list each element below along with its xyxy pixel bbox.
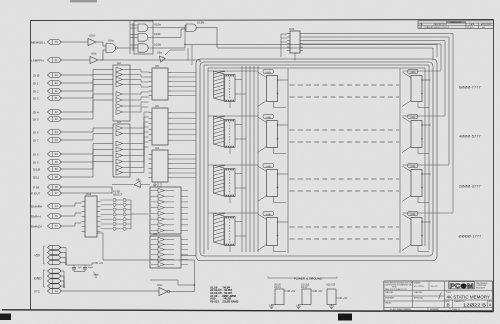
node LXMRFH stub bbox=[31, 58, 62, 63]
svg-text:APPROVED: APPROVED bbox=[481, 23, 492, 26]
wire DI stub y98 to buffer bbox=[61, 85, 114, 99]
svg-text:ENGINEER: ENGINEER bbox=[385, 298, 395, 300]
svg-text:+5V: +5V bbox=[34, 254, 41, 258]
node GND pin bbox=[48, 269, 62, 273]
svg-text:U7: U7 bbox=[153, 183, 157, 187]
wire U21 out y40.5 bbox=[303, 41, 445, 116]
svg-text:DI 6: DI 6 bbox=[33, 130, 39, 134]
node GND pin bbox=[48, 274, 62, 278]
svg-text:4K STATIC MEMORY: 4K STATIC MEMORY bbox=[447, 294, 491, 300]
svg-text:LXMRFH: LXMRFH bbox=[31, 58, 44, 62]
wire +IN arrow bbox=[92, 262, 103, 265]
IC U6 bbox=[149, 104, 172, 145]
wire riser x192 bbox=[191, 45, 193, 66]
svg-text:U21: U21 bbox=[289, 27, 295, 31]
wire row select left bbox=[208, 115, 258, 117]
svg-text:P2-U22 . . 21LØ2 RAMS: P2-U22 . . 21LØ2 RAMS bbox=[210, 300, 239, 304]
wire DI stub y177 to buffer bbox=[61, 162, 114, 178]
wire row select right bbox=[403, 70, 442, 72]
wire address bus vertical x242 bbox=[241, 66, 243, 252]
svg-text:DI 1: DI 1 bbox=[33, 81, 39, 85]
buffer U9e diag bbox=[112, 179, 150, 188]
capacitor C1 .1uF bbox=[72, 265, 82, 272]
wire U2 out y74.5 bbox=[130, 75, 149, 78]
IC U46A bbox=[220, 164, 247, 203]
buffer U9c bbox=[157, 283, 170, 296]
svg-text:U3: U3 bbox=[117, 120, 121, 124]
wire DI stub y132 to buffer bbox=[61, 128, 114, 132]
wire row select right bbox=[403, 115, 446, 117]
buffer array U2 bbox=[113, 61, 130, 121]
resistor pack RP3 (hatched) bbox=[214, 165, 225, 196]
svg-text:B: B bbox=[447, 303, 450, 308]
wire DI stub y162 to buffer bbox=[61, 150, 114, 163]
revision table bbox=[418, 21, 494, 29]
svg-text:J.B.: J.B. bbox=[482, 27, 486, 29]
regulator VR2 bbox=[296, 285, 323, 309]
node DI 7 stub bbox=[33, 138, 62, 143]
wire U2 out y94 bbox=[130, 92, 149, 94]
IC U48A bbox=[220, 70, 247, 108]
svg-text:DI 4: DI 4 bbox=[33, 110, 39, 114]
IC U5 bbox=[149, 64, 172, 100]
wire address bus vertical x246 bbox=[245, 66, 247, 252]
svg-text:+5V: +5V bbox=[291, 290, 296, 293]
wire U3 out y149.5 bbox=[130, 127, 149, 150]
svg-text:DI 8: DI 8 bbox=[33, 152, 39, 156]
svg-text:P OUT: P OUT bbox=[31, 191, 40, 195]
svg-text:POWER & GROUND: POWER & GROUND bbox=[294, 276, 323, 280]
wire U21 out y37 bbox=[303, 37, 449, 165]
wire U2 out y112 bbox=[130, 107, 149, 112]
buffer array U3 bbox=[113, 120, 130, 177]
node GND pin bbox=[48, 284, 62, 288]
svg-text:DMAZH: DMAZH bbox=[31, 224, 42, 228]
wire U10b output bbox=[196, 28, 217, 48]
wire gate input verticals bbox=[129, 21, 131, 54]
wire DI stub y154 to buffer bbox=[61, 144, 114, 155]
scan artifact bottom-left black bar bbox=[0, 314, 11, 321]
svg-text:12-1-75: 12-1-75 bbox=[431, 286, 439, 288]
svg-text:12Ø22 B: 12Ø22 B bbox=[463, 303, 486, 309]
svg-text:DI Ø: DI Ø bbox=[33, 73, 40, 77]
svg-text:U43a: U43a bbox=[410, 214, 416, 216]
regulator VR3 bbox=[326, 285, 348, 309]
svg-text:U9a: U9a bbox=[157, 51, 162, 55]
svg-text:MODULES: MODULES bbox=[476, 287, 486, 289]
wire bus top line 3 bbox=[204, 65, 429, 250]
wire DI stub y83 to buffer bbox=[61, 75, 114, 84]
wire U9d out bbox=[96, 42, 106, 46]
wire +5V rail to caps bbox=[66, 264, 92, 266]
wire row select right bbox=[403, 212, 454, 214]
svg-text:CHANGED PER ECO 1210-2: CHANGED PER ECO 1210-2 bbox=[424, 26, 449, 29]
wire U21 out y33.5 bbox=[303, 34, 453, 213]
svg-text:DI 3: DI 3 bbox=[33, 96, 39, 100]
svg-text:U47A: U47A bbox=[220, 115, 226, 118]
wire data bus col2 x400 bbox=[399, 69, 401, 254]
svg-text:RELEASED: RELEASED bbox=[430, 308, 440, 311]
svg-text:U41b: U41b bbox=[266, 117, 272, 119]
wire address bus vertical x258 bbox=[257, 66, 259, 252]
wire U3 out y161.5 bbox=[130, 137, 149, 162]
svg-text:U9c: U9c bbox=[136, 179, 141, 182]
wire dashed row bus b bbox=[290, 96, 400, 98]
svg-text:6ØØØ-7777: 6ØØØ-7777 bbox=[459, 86, 481, 90]
gate U10b AND bbox=[186, 21, 205, 32]
IC U21 bbox=[287, 27, 303, 53]
wire DI stub y140 to buffer bbox=[61, 134, 114, 141]
wire U3 out y155.5 bbox=[130, 132, 149, 156]
node +5V pin bbox=[48, 260, 62, 264]
notes parts list bbox=[210, 285, 239, 303]
node DMARH stub bbox=[31, 204, 62, 209]
buffer U9b bbox=[90, 52, 98, 64]
wire DI stub y112 to buffer bbox=[61, 94, 114, 112]
wire DI stub y119 to buffer bbox=[61, 100, 114, 119]
wire dashed row bus b bbox=[290, 238, 400, 240]
svg-text:U9a: U9a bbox=[108, 39, 114, 43]
node DI 3 stub bbox=[33, 96, 62, 101]
svg-text:U4: U4 bbox=[155, 146, 159, 150]
title block bbox=[384, 281, 493, 311]
node GND pin bbox=[48, 279, 62, 283]
svg-text:DATE: DATE bbox=[470, 23, 476, 26]
wire address bus vertical x254 bbox=[253, 66, 255, 252]
capacitor C2 35uF bbox=[83, 265, 94, 272]
wire U5 outputs to bus bbox=[172, 71, 197, 73]
svg-text:DI 7: DI 7 bbox=[33, 138, 39, 142]
svg-text:U1Ød: U1Ød bbox=[154, 42, 161, 46]
wire U9b branch to bus bbox=[100, 60, 200, 62]
svg-text:U48A: U48A bbox=[220, 70, 226, 73]
svg-text:PC⊕M: PC⊕M bbox=[450, 283, 475, 290]
svg-text:DI11: DI11 bbox=[33, 175, 40, 179]
wire U21 out y44 bbox=[303, 44, 441, 71]
node P OUT stub bbox=[31, 191, 62, 196]
IC U4 bbox=[149, 146, 172, 182]
node DI11 stub bbox=[33, 175, 62, 180]
node MEMSELL stub bbox=[31, 40, 62, 45]
wire U3 out y128 bbox=[130, 112, 149, 128]
svg-text:2ØØØ-3777: 2ØØØ-3777 bbox=[459, 185, 481, 189]
net label POWER & GROUND bbox=[268, 276, 337, 280]
svg-text:MEMSELL: MEMSELL bbox=[31, 40, 46, 44]
svg-text:U9b: U9b bbox=[91, 52, 97, 56]
svg-text:.1µF: .1µF bbox=[77, 267, 82, 269]
wire row select left bbox=[208, 212, 258, 214]
svg-text:35µF: 35µF bbox=[88, 267, 94, 269]
svg-text:DESCRIPTION: DESCRIPTION bbox=[434, 24, 448, 26]
svg-text:DMA H: DMA H bbox=[31, 214, 41, 218]
buffer U9a diag bbox=[157, 50, 185, 62]
gate U1Øa bbox=[138, 23, 161, 32]
wire DMA stub y216 to U11 bbox=[61, 213, 82, 216]
svg-text:DI 9: DI 9 bbox=[33, 160, 39, 164]
node +5V pin bbox=[48, 250, 62, 254]
wire U3 out y133.5 bbox=[130, 117, 149, 134]
svg-text:ØØØØ-1777: ØØØØ-1777 bbox=[459, 235, 482, 239]
wire row select left bbox=[208, 164, 258, 166]
wire address bus vertical x250 bbox=[249, 66, 251, 252]
node DI1Ø stub bbox=[33, 167, 62, 172]
wire GND pin bbox=[61, 276, 65, 288]
wire top bus y44.5 bbox=[185, 45, 437, 58]
resistor pack RP2 (hatched) bbox=[214, 116, 225, 147]
wire DI stub y91 to buffer bbox=[61, 80, 114, 92]
node DI 1 stub bbox=[33, 81, 62, 86]
wire U21 bottom drop bbox=[294, 53, 296, 61]
node DI 8 stub bbox=[33, 152, 62, 157]
svg-text:+IN: +IN bbox=[99, 262, 103, 265]
wire bus loop 2 bbox=[200, 62, 433, 256]
RAM U43b bbox=[258, 211, 289, 251]
wire DI stub y75 to buffer bbox=[61, 70, 114, 76]
RAM U42b bbox=[258, 163, 289, 202]
RAM U4Øb bbox=[258, 69, 289, 107]
wire dashed row bus b bbox=[290, 141, 400, 143]
svg-text:DMARH: DMARH bbox=[31, 204, 42, 208]
wire U21 left pins bbox=[281, 34, 287, 57]
wire U2 out y106 bbox=[130, 102, 149, 106]
wire U3 out y172.5 bbox=[130, 147, 149, 173]
ground symbol caps bbox=[74, 272, 99, 278]
svg-text:2465 FOURTH ST. BERKELEY CA.: 2465 FOURTH ST. BERKELEY CA. bbox=[385, 283, 412, 286]
node DI 5 stub bbox=[33, 117, 62, 122]
wire gate outs to U10b bbox=[157, 26, 186, 28]
wire U8 bottom row bbox=[150, 280, 178, 285]
wire dashed row bus b bbox=[290, 190, 400, 192]
gate U1Ød bbox=[138, 42, 161, 52]
RAM U41b bbox=[258, 114, 289, 153]
svg-text:DI 2: DI 2 bbox=[33, 89, 39, 93]
svg-text:U43b: U43b bbox=[266, 214, 272, 216]
wire U4 to U7 bbox=[154, 182, 156, 187]
node +5V pin bbox=[48, 255, 62, 259]
wire U9c out bbox=[170, 285, 195, 292]
svg-text:+5V: +5V bbox=[318, 290, 323, 293]
wire x194.5 vertical bbox=[194, 260, 196, 285]
gate U1Øc bbox=[138, 32, 161, 41]
regulator VR1 bbox=[269, 285, 296, 309]
wire U6 outputs to bus bbox=[172, 112, 197, 114]
svg-text:U1Øc: U1Øc bbox=[154, 32, 161, 36]
IC U47A bbox=[220, 115, 247, 154]
svg-text:4ØØØ-5777: 4ØØØ-5777 bbox=[459, 135, 481, 139]
svg-text:12-8-75: 12-8-75 bbox=[467, 27, 474, 29]
buffer U9d bbox=[88, 34, 96, 46]
svg-text:+5V: +5V bbox=[343, 297, 348, 300]
IC U45A bbox=[220, 212, 247, 252]
wire U3 out y143.5 bbox=[130, 122, 149, 144]
gate U9a bbox=[106, 39, 118, 53]
wire bus top line 4 bbox=[208, 68, 425, 246]
scan artifact bottom black square bbox=[338, 314, 352, 321]
svg-text:DI 5: DI 5 bbox=[33, 117, 39, 121]
svg-text:U12-U19: U12-U19 bbox=[326, 285, 336, 287]
svg-text:XTC: XTC bbox=[34, 289, 41, 293]
svg-text:U46A: U46A bbox=[220, 164, 226, 167]
svg-text:P IM: P IM bbox=[33, 185, 40, 189]
svg-text:U4Øa: U4Øa bbox=[410, 72, 416, 74]
node DI 9 stub bbox=[33, 160, 62, 165]
wire +5V pin bbox=[61, 253, 67, 266]
wire U8 to bottom bus bbox=[181, 255, 196, 257]
wire row select left bbox=[208, 70, 258, 72]
svg-text:CHECKED: CHECKED bbox=[385, 292, 394, 294]
svg-text:U11: U11 bbox=[86, 192, 92, 196]
svg-text:SELECT: SELECT bbox=[113, 193, 123, 196]
svg-text:U5: U5 bbox=[155, 64, 159, 68]
node XTC stub bbox=[34, 289, 62, 294]
svg-text:U9d: U9d bbox=[89, 34, 95, 38]
svg-text:U9c: U9c bbox=[157, 283, 163, 287]
svg-text:GND: GND bbox=[34, 277, 42, 281]
svg-text:U42a: U42a bbox=[410, 166, 416, 168]
node +5V group bbox=[34, 246, 45, 264]
wire GND pin bbox=[61, 271, 65, 288]
node DI 6 stub bbox=[33, 130, 62, 135]
wire dashed row bus a bbox=[290, 84, 400, 86]
node DMA H stub bbox=[31, 214, 62, 219]
svg-text:U8: U8 bbox=[153, 232, 157, 236]
resistor pack RP4 (hatched) bbox=[214, 213, 225, 245]
wire bus outer loop bbox=[196, 59, 437, 261]
RAM U43a bbox=[402, 211, 431, 251]
svg-text:TITLE: TITLE bbox=[446, 292, 452, 294]
wire U2 out y100 bbox=[130, 97, 149, 100]
svg-text:DRAWING NO: DRAWING NO bbox=[454, 300, 466, 303]
IC U11 bbox=[82, 192, 101, 237]
node DI Ø stub bbox=[33, 73, 62, 78]
RAM U41a bbox=[402, 114, 431, 153]
svg-text:U1Øa: U1Øa bbox=[154, 23, 161, 27]
wire DMA stub y226 to U11 bbox=[61, 223, 82, 226]
wire GND pin bbox=[61, 281, 65, 288]
svg-text:DATE 12-1-75 SHEET 1 OF 1: DATE 12-1-75 SHEET 1 OF 1 bbox=[385, 288, 407, 291]
svg-text:CHECKED: CHECKED bbox=[414, 292, 423, 294]
wire U2 out y69.5 bbox=[130, 70, 149, 73]
wire U3 out y167.5 bbox=[130, 142, 149, 168]
wire data bus col1 x288 bbox=[287, 69, 289, 254]
wire +5V pin bbox=[61, 258, 67, 266]
wire U2 out y84.5 bbox=[130, 85, 149, 88]
wire dashed row bus a bbox=[290, 178, 400, 180]
svg-text:U2: U2 bbox=[117, 61, 121, 65]
svg-text:U45A: U45A bbox=[220, 212, 226, 215]
RAM U42a bbox=[402, 163, 431, 202]
svg-text:APPROVED: APPROVED bbox=[414, 297, 424, 300]
wire DMA stub y206 to U11 bbox=[61, 203, 82, 206]
wire +5V pin bbox=[61, 263, 67, 266]
svg-text:DO NOT SCALE DRAWING: DO NOT SCALE DRAWING bbox=[390, 308, 412, 311]
svg-text:B. LITTLE: B. LITTLE bbox=[414, 286, 424, 288]
wire U2 out y79.5 bbox=[130, 80, 149, 83]
node DI 4 stub bbox=[33, 110, 62, 115]
wire MEMSELL to U9d bbox=[61, 41, 89, 43]
svg-text:U1Øb: U1Øb bbox=[197, 21, 205, 25]
wire DI stub y169 to buffer bbox=[61, 156, 114, 170]
wire bottom bus extension bbox=[97, 233, 195, 260]
wire top bus y48 bbox=[217, 48, 433, 61]
svg-text:SCALE 1:1: SCALE 1:1 bbox=[452, 308, 460, 311]
IC U10 gate box bbox=[134, 21, 153, 54]
RAM U4Øa bbox=[402, 69, 431, 107]
wire U9b out bbox=[98, 50, 106, 60]
buffer array U7 bbox=[150, 183, 188, 234]
resistor network P1-50 SELECT bbox=[101, 191, 149, 231]
svg-text:U41a: U41a bbox=[410, 117, 416, 119]
node GND group bbox=[34, 270, 45, 287]
wire dashed row bus a bbox=[290, 129, 400, 131]
svg-text:U4Øb: U4Øb bbox=[265, 72, 271, 74]
svg-text:U6: U6 bbox=[155, 104, 159, 108]
scan artifact top smudge bbox=[70, 0, 97, 2]
wire XTC to U9c bbox=[61, 290, 160, 292]
svg-text:U42b: U42b bbox=[266, 166, 272, 168]
buffer array U8 bbox=[150, 232, 188, 268]
wire P IM / P OUT loop bbox=[61, 187, 113, 193]
svg-text:REVISIONS: REVISIONS bbox=[451, 22, 463, 24]
wire bus left verticals bbox=[203, 75, 205, 254]
node P IM stub bbox=[33, 185, 62, 190]
resistor pack RP1 (hatched) bbox=[214, 71, 225, 101]
wire dashed row bus a bbox=[290, 226, 400, 228]
node DI 2 stub bbox=[33, 89, 62, 94]
wire LXMRFH to U9b bbox=[61, 59, 91, 61]
svg-text:ISSUED: ISSUED bbox=[385, 303, 392, 305]
node +5V pin bbox=[48, 245, 62, 249]
svg-text:DRAWN: DRAWN bbox=[414, 282, 421, 285]
wire U9a out to bus bbox=[118, 47, 130, 49]
wire row select right bbox=[403, 164, 450, 166]
wire U4 outputs to bus bbox=[172, 153, 197, 155]
wire GND pin bbox=[61, 286, 65, 288]
svg-text:DI1Ø: DI1Ø bbox=[33, 167, 41, 171]
wire +5V pin bbox=[61, 248, 67, 266]
node DMAZH stub bbox=[31, 224, 62, 229]
